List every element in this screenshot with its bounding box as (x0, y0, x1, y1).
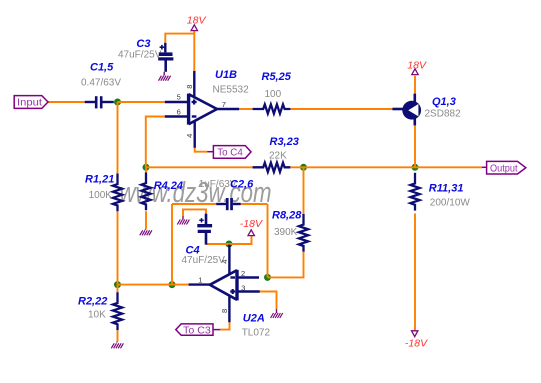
resistor R1,21 (113, 174, 122, 212)
svg-text:2: 2 (241, 269, 245, 278)
svg-text:To C4: To C4 (217, 147, 243, 159)
wire C4 bottom to node G (206, 243, 229, 245)
svg-text:NE5532: NE5532 (213, 84, 250, 95)
resistor R8,28 (299, 214, 308, 252)
resistor R3,23 (253, 163, 291, 172)
svg-text:4: 4 (220, 260, 229, 264)
wire node E to R3 (146, 166, 253, 168)
svg-text:5: 5 (177, 93, 181, 102)
svg-text:Output: Output (490, 162, 518, 174)
resistor R4,24 (141, 173, 150, 211)
svg-text:6: 6 (177, 107, 181, 116)
resistor R2,22 (113, 292, 122, 330)
ground below C3 (159, 72, 171, 81)
wire U1B pin4 to port (195, 148, 208, 152)
svg-text:100K: 100K (89, 190, 113, 201)
wire U2A pin3 to ground (260, 292, 277, 309)
wire 18V to U1B pin8 (193, 31, 195, 71)
port Input (14, 96, 48, 109)
wire C2 down to node D (267, 204, 269, 277)
power -18V (bottom) (412, 331, 418, 337)
svg-text:2SD882: 2SD882 (425, 109, 462, 120)
svg-text:Input: Input (17, 97, 42, 109)
svg-text:C3: C3 (136, 38, 150, 50)
power -18V (C4) (248, 230, 254, 236)
svg-text:-18V: -18V (405, 337, 428, 349)
svg-text:C2,6: C2,6 (230, 178, 254, 190)
wire R8 to node D (268, 252, 304, 277)
node input junction (114, 99, 121, 106)
wire input to C1 (48, 101, 85, 103)
ground left of C4 (177, 216, 189, 224)
svg-text:R1,21: R1,21 (85, 174, 114, 186)
wire node A down to R1 (117, 102, 119, 174)
wire R11 to -18V (414, 213, 416, 330)
wire U2A pin8 to port To C3 (220, 322, 229, 330)
capacitor C4 (197, 214, 212, 245)
svg-text:C1,5: C1,5 (90, 61, 114, 73)
svg-text:To C3: To C3 (183, 325, 211, 337)
resistor R5,25 (253, 104, 291, 113)
op-amp U1B (165, 71, 239, 148)
port To C3 (176, 324, 221, 337)
svg-text:100: 100 (265, 89, 282, 100)
transistor Q1,3 (392, 94, 421, 126)
ground U2A pin3 (271, 309, 283, 318)
wire node G to -18V symbol (229, 236, 252, 244)
wire U1B pin7 to R5 (239, 108, 252, 110)
svg-text:47uF/25V: 47uF/25V (118, 50, 162, 61)
wire ground to C4 top (183, 209, 206, 216)
port To C4 (207, 146, 251, 159)
wire 18V to Q1 collector (414, 76, 416, 94)
node R3/R8 junction (300, 164, 307, 171)
capacitor C3 (158, 43, 173, 72)
wire R5 to Q1 base (290, 108, 392, 110)
node U2A pin2 junction (264, 274, 271, 281)
svg-text:1: 1 (198, 275, 202, 284)
node R1/R2 junction (114, 281, 121, 288)
svg-text:R2,22: R2,22 (78, 296, 107, 308)
wire node A to U1B pin5 (118, 101, 165, 103)
power +18V (Q1) (412, 69, 418, 75)
wire branch to C3 (165, 34, 194, 43)
svg-text:390K: 390K (274, 227, 298, 238)
node C4/-18V junction (226, 241, 233, 248)
svg-text:4: 4 (185, 134, 194, 138)
svg-text:TL072: TL072 (242, 328, 271, 339)
capacitor C2,6 (216, 198, 241, 210)
wire node F down to R8 (303, 167, 305, 214)
svg-text:-18V: -18V (240, 218, 263, 230)
wire R2 to ground (117, 330, 119, 341)
svg-text:10K: 10K (88, 310, 106, 321)
ground below R2 (111, 342, 123, 349)
svg-text:R5,25: R5,25 (262, 71, 292, 83)
svg-text:U1B: U1B (215, 69, 237, 81)
svg-text:200/10W: 200/10W (430, 198, 471, 209)
node pin6 junction (143, 164, 150, 171)
svg-text:R4,24: R4,24 (154, 180, 183, 192)
node C2 left junction (169, 281, 176, 288)
svg-text:R11,31: R11,31 (429, 183, 464, 195)
wire U1B pin6 branch (146, 117, 165, 168)
svg-text:R3,23: R3,23 (270, 136, 299, 148)
op-amp U2A (189, 245, 260, 323)
wire R1 to node B (117, 211, 119, 284)
node output rail junction (412, 164, 419, 171)
svg-text:18V: 18V (187, 15, 207, 27)
resistor R11,31 (410, 173, 419, 211)
wire node B to R2 (117, 285, 119, 293)
wire node B to U2A output (118, 284, 189, 286)
capacitor C1,5 (85, 96, 114, 108)
svg-text:22K: 22K (269, 150, 287, 161)
wire R4 to ground (145, 211, 147, 229)
svg-text:U2A: U2A (243, 312, 265, 324)
wire node C up to C2 (171, 204, 173, 285)
port Output (482, 161, 526, 174)
svg-text:8: 8 (220, 309, 229, 313)
svg-text:R8,28: R8,28 (272, 210, 302, 222)
svg-text:Q1,3: Q1,3 (432, 96, 456, 108)
wire C2 right (241, 203, 268, 205)
svg-text:3: 3 (241, 284, 245, 293)
wire to C2 left (172, 203, 216, 205)
ground below R4 (140, 229, 152, 236)
svg-text:0.47/63V: 0.47/63V (81, 77, 121, 88)
svg-text:7: 7 (222, 100, 226, 109)
power +18V (U1B) (191, 25, 197, 31)
svg-text:18V: 18V (407, 59, 427, 71)
wire R3 to output rail (290, 166, 481, 168)
svg-text:8: 8 (185, 85, 194, 89)
wire node E to R4 (145, 167, 147, 172)
wire Q1 emitter to rail (414, 125, 416, 167)
svg-text:47uF/25V: 47uF/25V (182, 255, 226, 266)
